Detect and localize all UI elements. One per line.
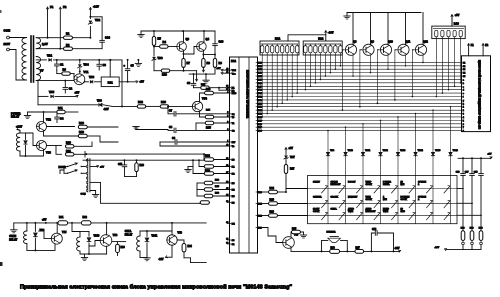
svg-text:-24V: -24V — [93, 5, 99, 9]
svg-text:COOK: COOK — [366, 199, 373, 201]
svg-text:VD10: VD10 — [94, 235, 100, 237]
wire VT3 collector to relay — [26, 133, 37, 146]
svg-text:R18: R18 — [79, 130, 84, 134]
resistor R11 — [57, 110, 66, 113]
node -24V buzzer — [399, 251, 400, 253]
resistor R29 — [470, 231, 474, 241]
diode VD5 — [38, 95, 48, 97]
svg-text:VD16: VD16 — [453, 150, 459, 152]
svg-text:2,6V: 2,6V — [42, 42, 48, 46]
wire — [28, 111, 57, 113]
wire W1 +5V rail bottom — [14, 222, 206, 224]
svg-text:MIN: MIN — [383, 199, 387, 201]
ground — [140, 31, 142, 35]
keyboard block frame — [308, 176, 458, 224]
svg-text:GRILL: GRILL — [331, 208, 338, 210]
svg-text:START: START — [313, 181, 321, 184]
op-amp U1 microcontroller DD1 body — [230, 57, 258, 253]
svg-text:R3: R3 — [63, 68, 67, 72]
capacitor C17 — [471, 157, 473, 159]
wire row3 to sense — [457, 214, 481, 216]
svg-text:VT5: VT5 — [62, 231, 67, 234]
wire collector rail — [347, 12, 421, 14]
svg-text:F1: F1 — [50, 5, 54, 9]
svg-text:VT2: VT2 — [46, 118, 51, 122]
capacitor C9 — [160, 141, 174, 143]
capacitor C11 — [124, 160, 126, 165]
resistor R27 — [284, 165, 287, 174]
svg-text:GRILL: GRILL — [125, 231, 132, 233]
node +5V bottom — [45, 222, 47, 224]
resistor R28 — [461, 231, 465, 241]
resistor R37 — [355, 250, 364, 254]
svg-text:DD1: DD1 — [231, 60, 237, 63]
door switch SW2 — [64, 172, 68, 174]
svg-text:+5V: +5V — [455, 14, 460, 17]
svg-text:R33: R33 — [121, 247, 126, 249]
svg-text:R2: R2 — [66, 43, 70, 47]
svg-text:MEMORY: MEMORY — [348, 196, 358, 198]
wire VT4 collector — [200, 93, 205, 102]
transistor Q3 — [177, 42, 187, 52]
wire sense bottom — [446, 249, 481, 251]
svg-text:VT8: VT8 — [178, 232, 183, 235]
svg-text:220V: 220V — [4, 42, 11, 46]
svg-text:+5V: +5V — [75, 91, 80, 95]
capacitor C4 — [56, 112, 58, 117]
transistor VT4 — [192, 101, 202, 111]
wire keypad columns — [327, 176, 329, 224]
transistor Q4 — [197, 42, 207, 52]
svg-text:-24V: -24V — [159, 258, 164, 261]
svg-text:MIN: MIN — [401, 184, 405, 186]
quartz cluster wire — [189, 70, 215, 74]
wire Q3 emitter to Q4 base — [184, 47, 198, 55]
diode VD9 — [34, 223, 36, 232]
resistor R37a — [204, 181, 213, 184]
diode VD13 — [397, 117, 399, 152]
wire bus2 to IC — [101, 182, 201, 203]
svg-text:Q4: Q4 — [206, 37, 210, 41]
svg-text:R36: R36 — [331, 247, 336, 249]
resistor R38a — [204, 188, 213, 191]
svg-text:RES: RES — [232, 93, 237, 95]
wire base VT1 — [73, 74, 75, 80]
svg-text:6: 6 — [227, 129, 228, 131]
voltage regulator DA1 — [101, 77, 119, 87]
svg-text:RA3: RA3 — [454, 23, 460, 26]
wire — [9, 37, 26, 39]
resistor R2 — [64, 47, 73, 50]
diode VD3 — [85, 81, 89, 83]
wire keypad rows — [308, 188, 458, 190]
svg-text:R32: R32 — [83, 216, 88, 219]
svg-text:R35: R35 — [292, 228, 297, 230]
svg-text:SEC: SEC — [401, 211, 406, 213]
svg-text:33: 33 — [226, 201, 228, 203]
svg-text:R12: R12 — [138, 100, 143, 104]
svg-text:6: 6 — [463, 124, 464, 126]
resistor R22 — [204, 158, 214, 161]
svg-text:Q3: Q3 — [186, 37, 190, 41]
svg-text:VD7: VD7 — [290, 156, 295, 159]
svg-text:COOK: COOK — [366, 184, 373, 186]
svg-text:+5V: +5V — [289, 147, 294, 150]
wire segment/grid bus lines — [263, 62, 462, 130]
svg-text:VD13: VD13 — [400, 150, 406, 152]
svg-text:R37: R37 — [356, 247, 361, 249]
wire top rail to regulator — [54, 59, 123, 61]
svg-text:VT4: VT4 — [202, 97, 207, 101]
svg-text:1: 1 — [463, 107, 464, 109]
ground — [13, 223, 15, 230]
svg-text:COM: COM — [81, 194, 86, 196]
svg-text:R11: R11 — [58, 106, 63, 110]
node F1 feed — [47, 37, 49, 39]
diode VD9 — [327, 131, 329, 153]
resistor R23 — [204, 165, 214, 168]
svg-text:R4: R4 — [163, 40, 167, 44]
resistor R24 — [256, 191, 263, 193]
wire +5V out of DA1 — [119, 81, 137, 83]
diode VD11 — [362, 124, 364, 153]
svg-text:DEFROST: DEFROST — [366, 211, 377, 213]
IC left pin ticks — [226, 69, 237, 247]
ground — [205, 74, 207, 80]
svg-text:+5V: +5V — [42, 219, 47, 222]
svg-text:Vdd: Vdd — [232, 70, 237, 72]
svg-text:C3: C3 — [103, 63, 107, 67]
ground — [346, 13, 348, 17]
capacitor C18 — [480, 157, 482, 159]
transistor Q11 — [398, 44, 409, 55]
svg-text:25: 25 — [226, 89, 228, 91]
svg-text:RELAY: RELAY — [9, 239, 17, 242]
svg-text:c: c — [463, 86, 464, 88]
wire RA1 pins to bus — [261, 55, 298, 118]
svg-text:R7: R7 — [187, 61, 191, 65]
svg-text:RA2: RA2 — [318, 37, 324, 41]
svg-text:R20: R20 — [66, 140, 71, 144]
svg-text:ЦИФРОВОЙ ВАКУУМНЫЙ ИНДИКАТОР И: ЦИФРОВОЙ ВАКУУМНЫЙ ИНДИКАТОР ИЛЦ1-8/8 — [478, 60, 482, 129]
wire — [140, 230, 172, 232]
svg-text:OPTION: OPTION — [418, 196, 426, 198]
svg-text:OPTION: OPTION — [418, 182, 426, 184]
diode VD10 — [88, 232, 90, 237]
wire — [79, 251, 81, 254]
transformer T1 secondary winding 2.6V — [36, 38, 40, 49]
ground — [140, 257, 147, 259]
transformer T1 core — [30, 36, 32, 82]
svg-text:COOK: COOK — [313, 211, 320, 213]
node F1 display — [468, 45, 470, 56]
diode VD across relay — [25, 133, 27, 139]
svg-text:KS57C2308-A0B4 / КР1829ВЕ1: KS57C2308-A0B4 / КР1829ВЕ1 — [246, 70, 250, 118]
resistor R10 — [153, 61, 155, 71]
svg-text:VD12: VD12 — [383, 150, 389, 152]
wire — [37, 81, 39, 105]
svg-text:VD3: VD3 — [89, 75, 95, 79]
resistor R40 — [200, 201, 209, 204]
node F2 feed — [59, 48, 61, 50]
diode VD12 — [380, 120, 382, 152]
resistor R14 — [205, 115, 214, 118]
wire long bus B — [83, 159, 204, 161]
resistor network RA1 — [260, 41, 299, 55]
wire bottom-most bus — [191, 262, 207, 264]
capacitor C16 — [462, 157, 464, 159]
svg-text:VD14: VD14 — [418, 149, 424, 152]
wire — [196, 71, 198, 81]
keypad switches — [313, 181, 450, 220]
svg-text:C10: C10 — [219, 40, 224, 44]
svg-text:G2: G2 — [463, 66, 466, 68]
zener diode VD4 — [79, 60, 81, 63]
capacitor C1 — [56, 60, 58, 64]
svg-text:VD11: VD11 — [152, 236, 158, 238]
wire — [36, 59, 46, 61]
svg-text:R22: R22 — [205, 153, 210, 157]
resistor R12 — [121, 60, 123, 107]
svg-text:+5V: +5V — [217, 68, 221, 70]
wire VT3 emitter — [36, 150, 44, 156]
svg-text:TIME: TIME — [348, 211, 354, 213]
zener diode VD7 pullup — [285, 180, 287, 189]
diode VD11 — [146, 231, 148, 236]
svg-text:Q11: Q11 — [406, 41, 411, 44]
svg-text:37: 37 — [226, 172, 228, 174]
svg-text:C4: C4 — [60, 117, 64, 121]
wire — [9, 50, 26, 81]
svg-text:R15: R15 — [206, 125, 211, 129]
resistor R3 — [62, 72, 71, 75]
svg-text:8: 8 — [463, 131, 464, 133]
wire +24V rail — [141, 30, 215, 32]
wire — [36, 37, 90, 39]
svg-text:R10: R10 — [162, 72, 167, 76]
resistor R33 — [112, 241, 126, 243]
resistor network RA3 — [432, 26, 465, 38]
svg-text:R31: R31 — [59, 216, 64, 219]
svg-text:R1: R1 — [66, 32, 70, 36]
svg-text:R21: R21 — [66, 149, 71, 153]
svg-text:VD4: VD4 — [84, 63, 90, 67]
svg-text:G1: G1 — [463, 62, 466, 64]
svg-text:CLOCK: CLOCK — [331, 196, 339, 198]
svg-text:CANCEL: CANCEL — [313, 195, 322, 198]
svg-text:RELAY: RELAY — [11, 116, 20, 119]
capacitor C14 — [89, 16, 91, 18]
wire IC top-left power pins — [222, 69, 227, 71]
resistor R34 — [177, 240, 184, 244]
transistor VT6 — [100, 235, 112, 247]
svg-text:VD15: VD15 — [435, 150, 441, 152]
diode VD16 — [450, 107, 452, 153]
svg-text:R19: R19 — [140, 164, 145, 167]
wire emitter bus 6V — [36, 80, 74, 82]
svg-text:R16: R16 — [79, 121, 84, 125]
svg-text:2: 2 — [463, 110, 464, 112]
svg-text:38: 38 — [226, 165, 228, 167]
wire X2 stub — [219, 89, 230, 91]
svg-text:COOK: COOK — [401, 199, 408, 201]
resistor R17 — [204, 172, 214, 175]
svg-text:31: 31 — [226, 238, 228, 240]
capacitor C3 — [98, 60, 100, 64]
svg-text:1: 1 — [227, 140, 228, 142]
svg-text:VD6: VD6 — [158, 56, 164, 60]
wire long bus A — [85, 153, 87, 155]
resistor R1 — [64, 36, 73, 39]
resistor R35 — [290, 232, 293, 237]
capacitor C12 — [370, 250, 372, 252]
transistor Q9 — [363, 44, 374, 55]
diode VD14 — [415, 114, 417, 153]
wire — [184, 258, 191, 263]
svg-text:30: 30 — [226, 242, 228, 244]
resistor RX to X1 — [194, 87, 201, 89]
diode VD1 — [49, 59, 52, 62]
svg-text:BUZZER: BUZZER — [327, 232, 336, 234]
zener diode VD6 — [153, 57, 156, 60]
resistor R21 — [56, 146, 62, 155]
svg-text:Q12: Q12 — [423, 41, 428, 44]
wire row1 to sense — [457, 188, 463, 190]
transistor Q10 — [380, 44, 391, 55]
svg-text:DEFROST: DEFROST — [331, 184, 342, 186]
resistor network RA2 — [303, 41, 342, 55]
svg-text:+5V: +5V — [488, 154, 492, 156]
wire bus2 from connector — [90, 181, 101, 183]
svg-text:G3: G3 — [463, 69, 466, 71]
capacitor C6 — [193, 73, 195, 75]
display pin labels — [463, 62, 466, 132]
resistor R39a — [204, 194, 213, 197]
svg-text:G5: G5 — [463, 76, 466, 78]
resistor R15 — [205, 121, 214, 124]
resistor R30 — [479, 231, 483, 241]
wire — [27, 249, 51, 251]
diode VD10 — [345, 127, 347, 152]
resistor R26 — [256, 215, 263, 217]
svg-text:RELAY: RELAY — [125, 233, 133, 236]
resistor R16 — [47, 126, 75, 128]
transistor VT5 — [51, 233, 62, 244]
svg-text:VT6: VT6 — [113, 234, 118, 237]
svg-text:VD2: VD2 — [95, 18, 101, 22]
resistor R13 — [160, 105, 169, 108]
svg-text:-24V: -24V — [104, 108, 109, 111]
ground — [137, 59, 139, 61]
svg-text:R8: R8 — [207, 61, 211, 65]
svg-text:R13: R13 — [161, 100, 166, 104]
resistor R5 — [153, 31, 155, 37]
svg-text:+24V: +24V — [16, 125, 22, 129]
ground — [300, 234, 306, 236]
svg-text:C14: C14 — [105, 36, 110, 40]
node COM input terminal — [4, 29, 11, 39]
diode VD8 — [99, 103, 102, 106]
diode VD15 — [432, 110, 434, 152]
svg-text:C2: C2 — [69, 87, 73, 91]
svg-text:3: 3 — [227, 121, 228, 123]
node 220V input terminal — [4, 42, 11, 51]
wire — [203, 54, 215, 56]
relay K1 coil — [19, 131, 21, 134]
svg-text:R25: R25 — [270, 199, 275, 202]
svg-text:VD5: VD5 — [49, 90, 55, 94]
wire RA3 pins to bus — [436, 39, 462, 98]
resistor R32 — [81, 221, 91, 225]
resistor R4 — [154, 46, 159, 48]
wire — [196, 183, 198, 196]
wire VT7 emitter — [291, 248, 330, 252]
svg-text:R9: R9 — [219, 61, 223, 65]
svg-text:e: e — [463, 93, 464, 95]
svg-text:40: 40 — [226, 144, 228, 146]
svg-text:2: 2 — [227, 115, 228, 117]
svg-text:VT3: VT3 — [46, 151, 51, 155]
svg-text:RA1: RA1 — [275, 37, 281, 41]
resistor R19 — [136, 160, 138, 163]
svg-text:C12: C12 — [372, 229, 377, 231]
node F2 display — [482, 45, 484, 56]
node +5V door sense — [90, 166, 98, 168]
transistor Q12 — [415, 44, 426, 55]
resistor R8 — [202, 51, 204, 59]
svg-text:C11: C11 — [118, 163, 123, 166]
svg-text:5: 5 — [463, 120, 464, 122]
transistor VT7 buzzer driver — [283, 237, 295, 249]
svg-text:R13: R13 — [206, 88, 211, 91]
capacitor C8 — [168, 129, 173, 132]
node -24V emitter — [171, 245, 173, 257]
svg-text:R27: R27 — [290, 168, 295, 171]
svg-text:6V: 6V — [40, 69, 44, 73]
capacitor C7 — [167, 106, 169, 108]
wire connector to ground — [90, 191, 96, 195]
transistor VT1 — [74, 74, 85, 85]
transistor VT3 — [37, 141, 47, 151]
wire sense lines — [458, 157, 490, 159]
node -30V supply to RA blocks — [288, 35, 326, 41]
svg-text:BOOST: BOOST — [348, 182, 356, 184]
transistor VT8 — [167, 235, 177, 245]
svg-text:32: 32 — [226, 222, 228, 224]
svg-text:7: 7 — [463, 127, 464, 129]
svg-text:3: 3 — [463, 114, 464, 116]
svg-text:R24: R24 — [270, 187, 275, 190]
IC right pin ticks — [256, 61, 263, 132]
svg-text:VD10: VD10 — [348, 150, 354, 152]
svg-text:R5: R5 — [158, 37, 162, 41]
svg-text:+5V: +5V — [100, 166, 104, 168]
node +5V — [76, 95, 79, 97]
transistor VT2 — [37, 122, 47, 132]
svg-text:Q10: Q10 — [388, 41, 393, 44]
resistor R18 — [78, 134, 87, 137]
transformer T1 secondary winding 6V — [36, 57, 40, 81]
capacitor C10 — [214, 31, 216, 44]
svg-text:-30V: -30V — [328, 31, 334, 35]
wire — [36, 48, 102, 50]
wire RA2 pins to bus — [305, 55, 342, 90]
zener diode VD2 — [89, 21, 92, 24]
svg-text:R34: R34 — [188, 245, 193, 248]
svg-text:DA1: DA1 — [108, 81, 114, 84]
svg-text:TIME: TIME — [383, 211, 389, 213]
svg-text:5: 5 — [227, 112, 228, 114]
